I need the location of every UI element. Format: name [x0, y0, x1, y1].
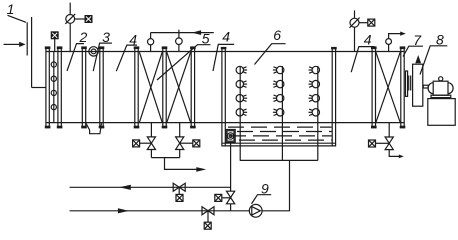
pipe 2 valve actuator — [204, 222, 211, 229]
flow arrow left pipe 1 — [119, 185, 131, 190]
duct bottom line — [46, 122, 404, 124]
valve V2 stem above — [354, 10, 356, 18]
flange A — [57, 46, 63, 128]
drain 3 actuator link — [376, 142, 390, 144]
suction valve actuator link — [222, 197, 231, 199]
fan casing — [413, 64, 423, 106]
pump discharge pipe — [262, 160, 289, 210]
drain collector — [151, 157, 179, 159]
drain 2 valve — [176, 137, 184, 150]
spray pipe column 2 — [281, 66, 283, 160]
tank water level dashes row 1 — [228, 126, 332, 128]
heat exchanger HE3 cross — [376, 52, 400, 122]
drain outlet arrow — [196, 167, 206, 172]
leader for label 4 third — [351, 47, 374, 73]
nozzles column 3 — [309, 66, 320, 73]
heater pipe mid stub — [178, 33, 180, 38]
strainer circles — [227, 133, 233, 139]
flange D — [134, 46, 140, 128]
valve V1 slash — [65, 14, 75, 24]
suction strainer box — [226, 130, 235, 143]
drain 3 stem — [388, 123, 390, 137]
flange C — [99, 46, 105, 128]
heater supply pipe — [151, 32, 214, 34]
suction drop pipe lower — [230, 204, 232, 211]
heat exchanger HE1 cross — [139, 52, 162, 122]
flow arrow left on heater pipe — [192, 30, 201, 35]
drain 1 actuator link — [140, 142, 152, 144]
flange E — [162, 46, 168, 128]
damper blade pivot circles — [51, 62, 56, 67]
vent circle C1 — [148, 39, 154, 45]
flexible connector bar 1 — [408, 76, 409, 91]
makeup pipe 2 — [70, 210, 250, 212]
vent C1 stem — [150, 45, 152, 52]
leader for label 4 first — [116, 45, 137, 71]
svg-text:4: 4 — [364, 32, 372, 48]
casing left wall — [45, 46, 51, 128]
drain 1 valve — [147, 137, 155, 150]
valve V2 stem below — [354, 27, 356, 51]
valve V1 actuator box — [85, 15, 93, 23]
drain 1 actuator box — [133, 140, 140, 147]
drain 3 outlet — [389, 150, 399, 157]
motor left end bell — [428, 83, 433, 94]
svg-text:6: 6 — [273, 27, 281, 43]
tank water level dashes row 4 — [239, 139, 332, 141]
pump circle — [249, 204, 262, 217]
leader for label 8 — [420, 46, 447, 75]
valve V1 stem above — [69, 3, 71, 15]
motor terminal cap — [439, 77, 443, 81]
leader for label 2 — [67, 44, 84, 71]
flange F — [190, 46, 196, 128]
valve V2 link — [359, 22, 368, 24]
pump impeller triangle — [252, 207, 260, 215]
spray chamber right wall — [331, 48, 333, 146]
valve V1 stem below — [69, 23, 71, 51]
intake louver — [26, 22, 28, 55]
valve V2 actuator box — [368, 19, 375, 26]
drain 2 stem — [179, 123, 181, 137]
flange B — [81, 46, 87, 128]
heater pipe mid tick — [178, 30, 180, 33]
svg-text:4: 4 — [222, 29, 230, 45]
drain 2 actuator link — [180, 142, 193, 144]
suction valve actuator box — [215, 194, 222, 201]
leader for label 7 — [403, 46, 423, 56]
drain 3 arrow — [399, 155, 404, 159]
drain pan under washer — [86, 123, 102, 134]
drain 3 actuator box — [369, 140, 376, 147]
svg-text:2: 2 — [79, 29, 88, 45]
flexible connector bar 2 — [410, 76, 411, 91]
pipe 1 valve stem — [178, 187, 180, 194]
drain 2 actuator box — [193, 140, 200, 147]
fan discharge arrow — [415, 55, 421, 63]
washer wheel — [89, 47, 98, 56]
vent circle C2 — [176, 38, 183, 45]
nozzles column 2 — [273, 66, 284, 73]
flow arrow right pipe 2 — [118, 208, 129, 213]
heater pipe left stub — [150, 33, 152, 39]
vent V3 stem below — [388, 44, 390, 51]
fan shaft — [423, 85, 428, 88]
duct top line — [46, 51, 404, 53]
leader for label 5 — [157, 45, 211, 80]
vent V3 circle — [386, 39, 392, 45]
overflow pipe 1 — [70, 186, 231, 188]
duct end wall — [400, 46, 406, 128]
valve V2 slash — [350, 18, 360, 28]
pipe 2 valve — [202, 207, 214, 215]
vent C2 stem — [178, 45, 180, 52]
svg-text:8: 8 — [436, 31, 444, 47]
vent V3 arrow — [400, 32, 406, 36]
leader for label 9 — [252, 195, 272, 204]
damper actuator box — [51, 31, 59, 39]
flexible connector outline — [406, 71, 408, 96]
motor pedestal — [428, 99, 455, 126]
flange H — [371, 46, 377, 128]
pipe 2 valve stem — [207, 211, 209, 222]
leader for label 4 second — [213, 44, 234, 71]
tank bottom — [222, 142, 336, 144]
motor body — [433, 81, 448, 95]
spray chamber left wall — [221, 48, 223, 146]
pipe 1 valve — [173, 183, 185, 191]
suction drop pipe — [230, 142, 232, 191]
tank water level dashes row 3 — [230, 135, 332, 137]
motor right end bell — [448, 83, 453, 94]
svg-text:9: 9 — [261, 180, 269, 196]
drain 1 stem — [150, 123, 152, 137]
damper blade axis — [53, 52, 55, 123]
svg-text:7: 7 — [413, 32, 422, 48]
heat exchanger HE2 cross — [167, 52, 191, 122]
drain 1 lower stem — [150, 150, 152, 158]
leader for label 1 — [8, 15, 27, 22]
leader for label 6 — [255, 44, 286, 65]
motor base plate — [431, 95, 451, 97]
leader for label 3 — [93, 43, 112, 71]
spray pipe column 3 — [317, 66, 319, 160]
pipe 1 valve actuator — [176, 194, 183, 201]
valve V1 link — [75, 18, 85, 20]
drain 2 lower stem — [179, 150, 181, 158]
vent V3 riser — [389, 34, 401, 39]
intake connector duct — [32, 87, 46, 89]
valve V1 circle — [66, 15, 75, 24]
inlet airflow arrow — [4, 43, 20, 45]
svg-text:1: 1 — [7, 1, 15, 17]
nozzles column 1 — [236, 66, 247, 73]
damper actuator stem — [54, 38, 56, 51]
drain collector outlet — [165, 158, 198, 170]
spray pipe column 1 — [239, 66, 241, 160]
valve V2 circle — [350, 18, 359, 27]
drain 3 valve — [385, 137, 393, 150]
suction valve — [227, 191, 235, 204]
tank water level dashes row 2 — [237, 131, 332, 133]
spray header — [240, 159, 318, 161]
